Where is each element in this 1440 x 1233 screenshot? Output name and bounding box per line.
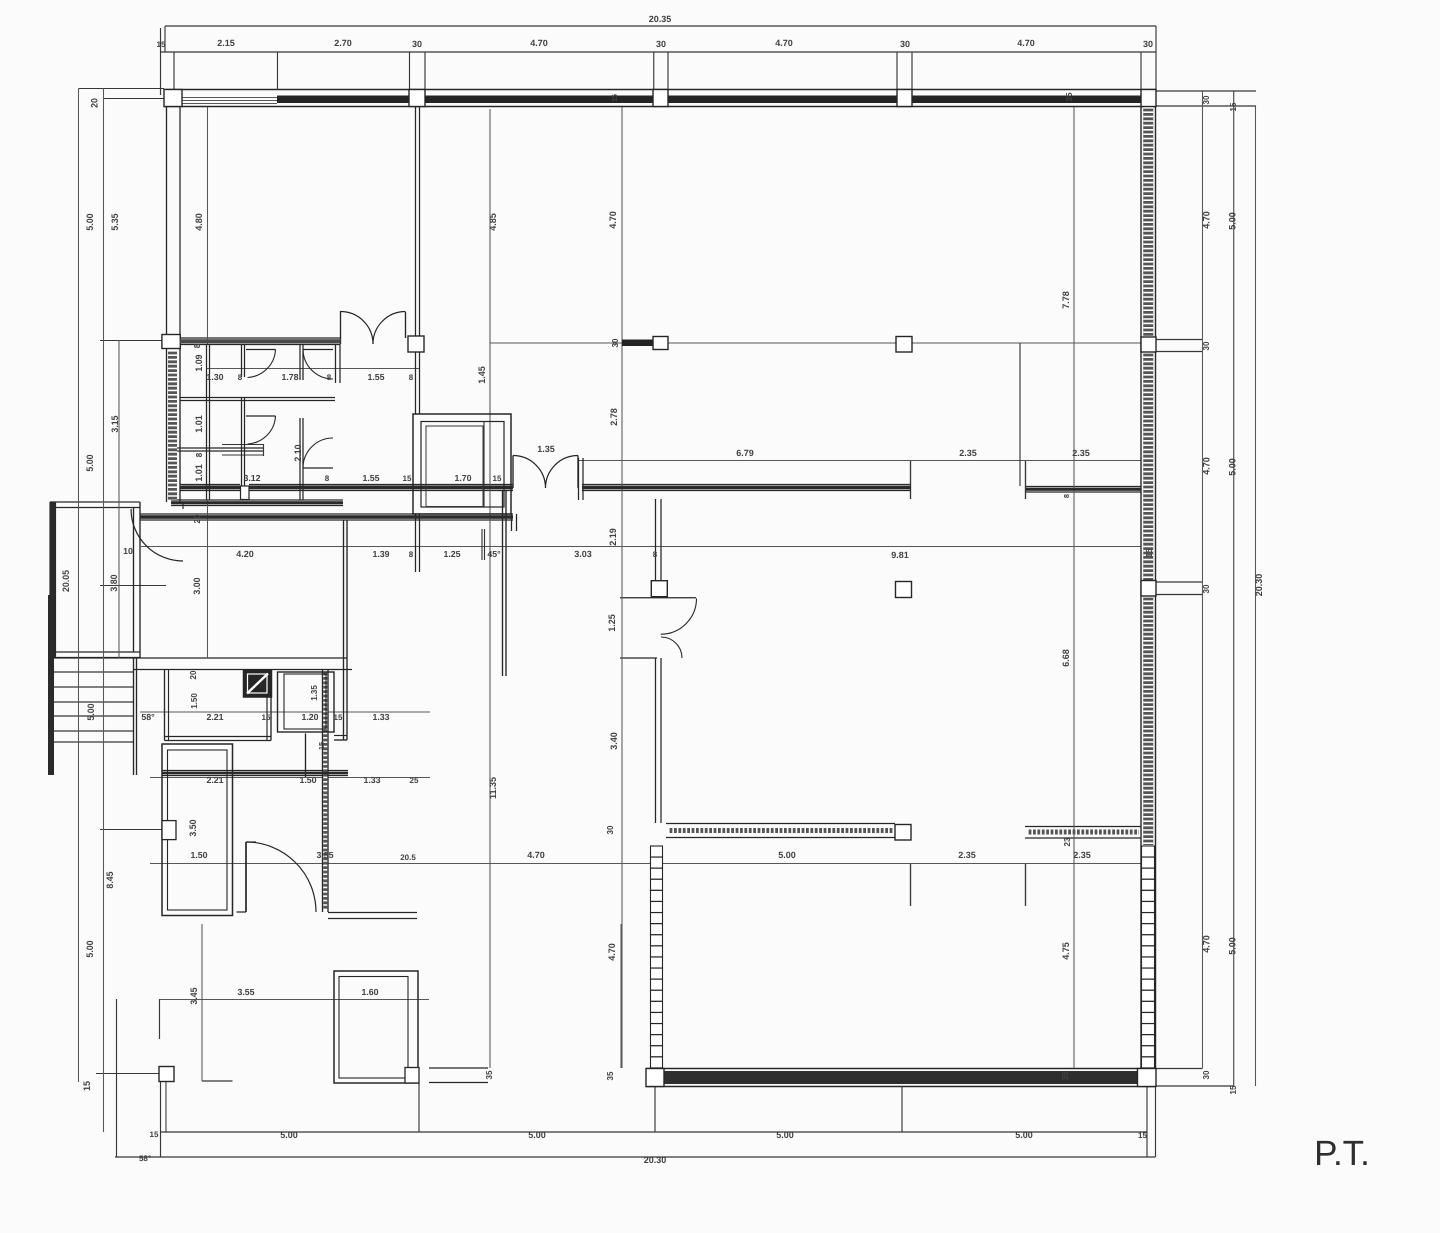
- svg-text:4.70: 4.70: [530, 38, 548, 48]
- svg-text:5.00: 5.00: [280, 1130, 298, 1140]
- svg-text:35: 35: [1061, 1071, 1070, 1080]
- svg-text:20.30: 20.30: [1254, 574, 1264, 597]
- svg-text:3.45: 3.45: [189, 987, 199, 1004]
- svg-text:30: 30: [1202, 1070, 1211, 1079]
- svg-text:4.70: 4.70: [1017, 38, 1035, 48]
- svg-text:23: 23: [1063, 837, 1072, 846]
- svg-text:3.55: 3.55: [237, 987, 254, 997]
- svg-text:8: 8: [193, 343, 202, 348]
- svg-text:1.09: 1.09: [194, 354, 204, 371]
- svg-text:20.35: 20.35: [649, 14, 672, 24]
- svg-text:8: 8: [195, 452, 204, 457]
- svg-text:6.68: 6.68: [1061, 649, 1071, 667]
- svg-text:3.03: 3.03: [574, 549, 592, 559]
- svg-text:5.00: 5.00: [85, 213, 95, 230]
- svg-text:4.70: 4.70: [608, 211, 618, 229]
- svg-text:30: 30: [656, 39, 666, 49]
- svg-text:5.00: 5.00: [1228, 212, 1238, 230]
- svg-text:3.80: 3.80: [109, 574, 119, 591]
- svg-text:3.40: 3.40: [609, 732, 619, 750]
- svg-text:15: 15: [1229, 102, 1238, 111]
- svg-text:1.50: 1.50: [299, 775, 316, 785]
- svg-text:2.35: 2.35: [959, 448, 977, 458]
- svg-text:P.T.: P.T.: [1314, 1134, 1370, 1173]
- svg-text:1.35: 1.35: [310, 685, 319, 701]
- svg-text:4.85: 4.85: [488, 213, 498, 231]
- svg-text:4.20: 4.20: [236, 549, 254, 559]
- svg-text:4.70: 4.70: [527, 850, 545, 860]
- svg-text:2.21: 2.21: [206, 775, 223, 785]
- svg-text:1.70: 1.70: [454, 473, 471, 483]
- svg-text:5.00: 5.00: [85, 454, 95, 471]
- svg-text:8: 8: [1062, 494, 1071, 498]
- svg-text:30: 30: [606, 825, 615, 834]
- svg-text:11.35: 11.35: [488, 777, 498, 799]
- svg-text:15: 15: [612, 94, 619, 102]
- svg-text:30: 30: [1202, 584, 1211, 593]
- svg-text:2.10: 2.10: [293, 444, 303, 461]
- svg-text:15: 15: [150, 1130, 159, 1139]
- svg-text:1.78: 1.78: [281, 372, 298, 382]
- svg-text:15: 15: [403, 474, 412, 483]
- svg-text:30: 30: [611, 338, 620, 347]
- svg-text:4.80: 4.80: [194, 213, 204, 231]
- svg-text:7.78: 7.78: [1061, 291, 1071, 309]
- svg-text:1.50: 1.50: [190, 850, 207, 860]
- svg-text:20.30: 20.30: [644, 1155, 667, 1165]
- svg-text:2.15: 2.15: [217, 38, 235, 48]
- svg-text:30: 30: [1202, 95, 1211, 104]
- svg-text:4.70: 4.70: [1202, 457, 1212, 475]
- svg-text:35: 35: [606, 1071, 615, 1080]
- svg-text:8: 8: [238, 373, 243, 382]
- svg-text:15: 15: [1229, 1085, 1238, 1094]
- svg-text:45°: 45°: [487, 549, 501, 559]
- svg-text:3.12: 3.12: [243, 473, 260, 483]
- svg-text:1.25: 1.25: [443, 549, 460, 559]
- svg-text:58°: 58°: [141, 712, 155, 722]
- svg-text:15: 15: [1138, 1131, 1147, 1140]
- svg-text:8: 8: [325, 474, 330, 483]
- svg-text:1.60: 1.60: [361, 987, 378, 997]
- svg-text:2.35: 2.35: [1073, 850, 1091, 860]
- svg-text:1.01: 1.01: [194, 464, 204, 482]
- svg-text:15: 15: [82, 1081, 92, 1091]
- svg-text:30: 30: [900, 39, 910, 49]
- svg-text:8: 8: [409, 550, 414, 559]
- svg-text:20.5: 20.5: [400, 853, 416, 862]
- svg-text:2.19: 2.19: [608, 528, 618, 546]
- svg-text:1.55: 1.55: [367, 372, 384, 382]
- svg-text:2.78: 2.78: [609, 408, 619, 426]
- svg-text:15: 15: [334, 713, 343, 722]
- svg-text:3.00: 3.00: [192, 577, 202, 594]
- svg-text:20: 20: [193, 514, 202, 523]
- svg-text:5.00: 5.00: [85, 940, 95, 957]
- svg-text:30: 30: [1202, 341, 1211, 350]
- svg-text:5.00: 5.00: [1228, 458, 1238, 476]
- svg-text:4.70: 4.70: [607, 943, 617, 961]
- svg-text:5.00: 5.00: [1228, 937, 1238, 955]
- svg-text:2.35: 2.35: [958, 850, 976, 860]
- svg-text:1.25: 1.25: [607, 614, 617, 632]
- svg-text:3.15: 3.15: [110, 415, 120, 432]
- svg-text:5.00: 5.00: [528, 1130, 546, 1140]
- svg-text:3.50: 3.50: [188, 819, 198, 836]
- svg-text:20: 20: [90, 98, 100, 108]
- svg-text:15: 15: [262, 713, 271, 722]
- svg-text:1.50: 1.50: [190, 693, 199, 709]
- svg-text:35: 35: [1065, 92, 1074, 101]
- svg-text:4.70: 4.70: [1202, 211, 1212, 229]
- svg-text:30: 30: [412, 39, 422, 49]
- svg-text:4.70: 4.70: [1202, 935, 1212, 953]
- svg-text:5.35: 5.35: [110, 213, 120, 230]
- svg-text:8: 8: [327, 373, 332, 382]
- svg-text:10: 10: [123, 546, 133, 556]
- svg-text:4.75: 4.75: [1061, 942, 1071, 960]
- svg-text:2.35: 2.35: [1072, 448, 1090, 458]
- svg-text:1.30: 1.30: [206, 372, 223, 382]
- svg-text:5.00: 5.00: [86, 703, 96, 720]
- svg-text:5.00: 5.00: [1015, 1130, 1033, 1140]
- svg-text:20: 20: [189, 670, 198, 679]
- svg-text:25: 25: [410, 776, 419, 785]
- svg-text:30: 30: [1143, 39, 1153, 49]
- svg-text:1.55: 1.55: [362, 473, 379, 483]
- svg-text:58°: 58°: [139, 1154, 151, 1163]
- svg-text:5.00: 5.00: [778, 850, 796, 860]
- svg-text:9.81: 9.81: [891, 550, 909, 560]
- svg-text:8: 8: [653, 550, 658, 559]
- svg-text:6.79: 6.79: [736, 448, 754, 458]
- svg-text:4.70: 4.70: [775, 38, 793, 48]
- svg-text:1.35: 1.35: [537, 444, 555, 454]
- svg-text:1.45: 1.45: [477, 366, 487, 384]
- svg-text:1.01: 1.01: [194, 415, 204, 433]
- svg-text:15: 15: [1145, 548, 1154, 557]
- svg-text:1.33: 1.33: [363, 775, 380, 785]
- svg-text:1.20: 1.20: [301, 712, 318, 722]
- svg-text:15: 15: [493, 474, 502, 483]
- svg-text:2.21: 2.21: [206, 712, 223, 722]
- svg-text:5.00: 5.00: [776, 1130, 794, 1140]
- svg-text:20.05: 20.05: [61, 570, 71, 592]
- svg-text:8: 8: [409, 373, 414, 382]
- svg-text:15: 15: [157, 40, 166, 49]
- svg-text:2.70: 2.70: [334, 38, 352, 48]
- svg-text:8.45: 8.45: [105, 871, 115, 888]
- svg-text:15: 15: [317, 742, 326, 750]
- svg-text:3.55: 3.55: [316, 850, 333, 860]
- svg-text:35: 35: [485, 1070, 494, 1079]
- svg-text:1.33: 1.33: [372, 712, 389, 722]
- svg-text:1.39: 1.39: [372, 549, 389, 559]
